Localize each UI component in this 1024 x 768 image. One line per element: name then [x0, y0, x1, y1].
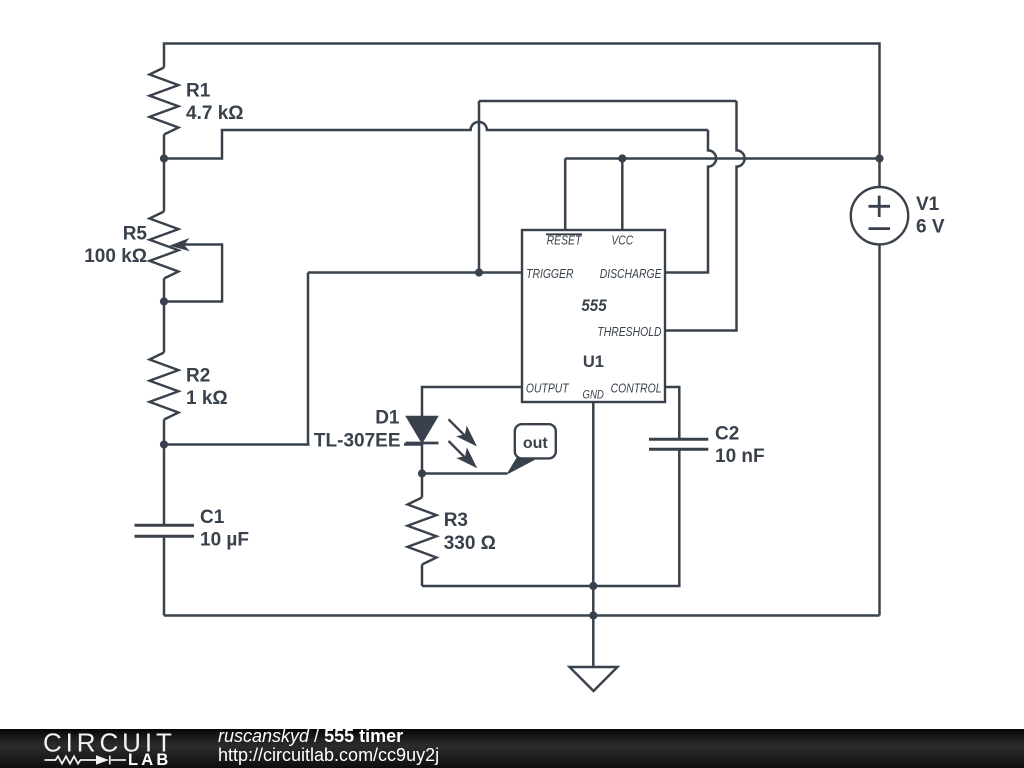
wire control to C2 [665, 387, 679, 439]
flag out pointer [506, 457, 535, 475]
junction gnd bottom wire [589, 582, 597, 590]
wire V1 bottom lead [878, 244, 881, 615]
wire threshold top link [479, 100, 737, 103]
svg-text:R3: R3 [444, 510, 468, 531]
wire R3 to C2 bottom [422, 449, 679, 586]
voltage source V1 [851, 187, 908, 244]
label R1 4.7 kOhm [186, 81, 244, 125]
wire C1 to bottom rail [163, 536, 166, 615]
label V1 6 V [916, 194, 945, 237]
svg-text:C1: C1 [200, 507, 225, 528]
resistor R2 [150, 353, 179, 420]
capacitor C1 [135, 525, 195, 536]
svg-text:C2: C2 [715, 424, 739, 445]
wire R2 bottom through junction to C1 [163, 420, 166, 526]
potentiometer R5 [150, 212, 223, 302]
wire R5 bottom to junction [163, 279, 166, 302]
wire vcc stub [621, 159, 624, 231]
label D1 TL-307EE [314, 408, 401, 452]
RESET overline [546, 233, 582, 235]
svg-text:1 kΩ: 1 kΩ [186, 388, 228, 409]
wire top rail [164, 44, 880, 159]
D1 light arrow upper [449, 419, 478, 446]
wire vcc rail [565, 157, 879, 160]
junction vcc rail [618, 154, 626, 162]
wire threshold riser with hop [665, 101, 745, 331]
wire gnd [592, 402, 595, 667]
junction trigger riser [475, 268, 483, 276]
wire D1 left segment [164, 443, 310, 446]
wire R1 bottom lead to junction [163, 135, 166, 159]
footer bar [0, 729, 1024, 768]
label R3 330 Ohm [444, 510, 496, 554]
svg-text:TRIGGER: TRIGGER [526, 267, 574, 281]
svg-text:VCC: VCC [611, 233, 633, 247]
wire discharge riser with hop [665, 130, 716, 273]
wire R3 top lead [421, 474, 424, 498]
svg-text:LAB: LAB [128, 751, 172, 768]
svg-text:out: out [523, 435, 549, 452]
svg-text:4.7 kΩ: 4.7 kΩ [186, 103, 244, 124]
svg-text:6 V: 6 V [916, 216, 945, 237]
ground symbol [570, 667, 618, 691]
svg-text:RESET: RESET [547, 233, 582, 247]
svg-text:V1: V1 [916, 194, 940, 215]
svg-text:D1: D1 [375, 408, 400, 429]
wire D1 cathode to junction [421, 443, 424, 474]
footer title text [218, 727, 439, 764]
svg-text:DISCHARGE: DISCHARGE [600, 267, 662, 281]
svg-text:100 kΩ: 100 kΩ [84, 246, 147, 267]
label C1 10 uF [200, 507, 249, 551]
diode D1 cathode bar [406, 442, 439, 445]
wire trigger [308, 271, 522, 274]
svg-text:555: 555 [581, 296, 607, 315]
label R5 100 kOhm [84, 224, 147, 268]
wire out tap [422, 472, 507, 475]
junction D1 R3 out [418, 469, 426, 477]
potentiometer R5 wiper arrow [169, 238, 190, 251]
wire V1 top lead [878, 159, 881, 188]
svg-text:GND: GND [583, 388, 604, 401]
IC U1 box [522, 230, 665, 402]
svg-text:10 nF: 10 nF [715, 446, 765, 467]
resistor R1 [150, 68, 179, 135]
junction R1 jog [160, 154, 168, 162]
wire R1 junction jog to discharge rail [164, 122, 708, 159]
svg-text:OUTPUT: OUTPUT [526, 381, 569, 395]
svg-text:10 µF: 10 µF [200, 530, 249, 551]
wire trigger drop [307, 273, 310, 445]
wire left rail R1 junction to R5 [163, 159, 166, 212]
junction gnd bottom rail [589, 611, 597, 619]
svg-text:THRESHOLD: THRESHOLD [597, 325, 662, 339]
svg-text:330 Ω: 330 Ω [444, 533, 496, 554]
wire reset stub [564, 159, 567, 231]
junction R5 wiper [160, 297, 168, 305]
wire output [422, 387, 522, 417]
D1 light arrow lower [449, 441, 478, 468]
svg-text:CONTROL: CONTROL [611, 381, 662, 395]
svg-text:R2: R2 [186, 366, 210, 387]
label R2 1 kOhm [186, 366, 228, 410]
wire D1 right segment [404, 443, 422, 446]
svg-text:U1: U1 [583, 353, 604, 371]
svg-text:R5: R5 [123, 224, 148, 245]
CircuitLab logo [0, 729, 200, 768]
svg-text:R1: R1 [186, 81, 211, 102]
wire bottom rail [164, 614, 880, 617]
junction V1 tap [875, 154, 883, 162]
wire R3 bottom lead [421, 565, 424, 587]
resistor R3 [408, 498, 437, 565]
junction R2 D1 C1 [160, 440, 168, 448]
label C2 10 nF [715, 424, 765, 468]
wire R5 junction to R2 [163, 302, 166, 353]
svg-text:TL-307EE: TL-307EE [314, 430, 401, 451]
flag out box [515, 424, 556, 458]
wire trigger-threshold riser [478, 101, 481, 273]
capacitor C2 [649, 439, 708, 449]
diode D1 triangle [407, 417, 438, 443]
